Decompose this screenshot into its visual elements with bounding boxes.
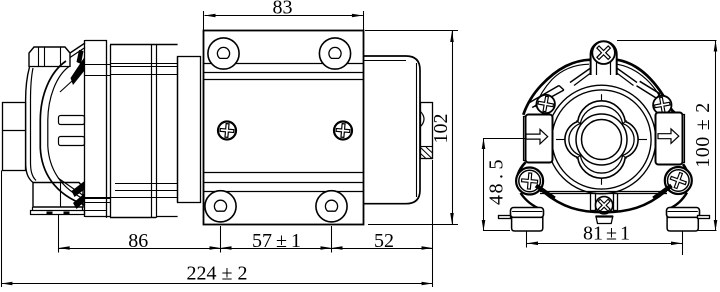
svg-text:83: 83 [273,0,293,19]
svg-text:86: 86 [128,230,148,252]
svg-text:52: 52 [374,230,394,252]
svg-text:81±1: 81±1 [583,223,630,245]
svg-text:57±1: 57±1 [252,230,301,252]
svg-text:102: 102 [430,114,452,144]
